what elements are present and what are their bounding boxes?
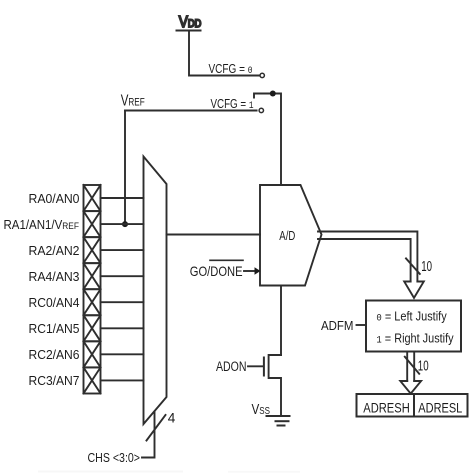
svg-text:1 = Right Justify: 1 = Right Justify <box>376 330 454 346</box>
svg-text:ADRESH: ADRESH <box>363 401 410 416</box>
analog input multiplexer <box>144 157 167 425</box>
bus width slash 4 <box>147 415 166 441</box>
svg-text:RA0/AN0: RA0/AN0 <box>29 191 80 206</box>
wire VREF to VCFG=1 contact <box>125 110 257 112</box>
wire CHS select into mux <box>142 412 155 458</box>
wire VREF down to RA1 pin <box>124 111 126 225</box>
switch contact VCFG=0 <box>260 73 264 77</box>
svg-text:GO/DONE: GO/DONE <box>190 264 243 279</box>
open arrowhead into result registers <box>400 381 421 394</box>
register ADRESL <box>414 394 468 417</box>
svg-text:RC1/AN5: RC1/AN5 <box>29 321 80 336</box>
svg-text:RC2/AN6: RC2/AN6 <box>29 347 80 362</box>
svg-text:RC0/AN4: RC0/AN4 <box>29 295 80 310</box>
svg-text:VREF: VREF <box>121 92 145 109</box>
svg-text:4: 4 <box>168 411 176 426</box>
junction dot on wiper <box>270 91 276 97</box>
switch contact VCFG=1 <box>259 108 263 112</box>
svg-text:ADFM: ADFM <box>321 318 354 333</box>
pin RC0/AN4 <box>29 289 144 315</box>
result justify block <box>366 301 461 352</box>
svg-text:VCFG = 0: VCFG = 0 <box>209 61 253 77</box>
A/D converter block <box>260 185 322 286</box>
svg-text:RC3/AN7: RC3/AN7 <box>29 373 80 388</box>
pin RC3/AN7 <box>29 367 144 393</box>
wire A/D bottom to transistor drain <box>280 286 282 356</box>
wire VDD to VCFG=0 contact <box>189 32 259 76</box>
svg-text:VDD: VDD <box>179 14 202 31</box>
bus width slash 10 <box>405 357 419 374</box>
wire mux output to A/D input <box>167 234 261 236</box>
register ADRESH <box>357 394 415 417</box>
svg-text:VCFG = 1: VCFG = 1 <box>211 96 254 112</box>
pin RA4/AN3 <box>29 263 144 289</box>
switch wiper wire to A/D reference input <box>254 94 281 186</box>
svg-text:CHS <3:0>: CHS <3:0> <box>88 450 141 465</box>
bus width slash 10 <box>406 258 420 274</box>
svg-text:ADRESL: ADRESL <box>418 401 462 416</box>
ground <box>267 416 290 426</box>
open arrowhead into justify block <box>404 282 424 298</box>
svg-text:10: 10 <box>421 259 432 275</box>
junction dot at RA1/AN1/VREF <box>122 221 128 227</box>
svg-text:0 = Left Justify: 0 = Left Justify <box>376 309 447 325</box>
svg-text:RA4/AN3: RA4/AN3 <box>29 269 80 284</box>
transistor ADON pass FET <box>248 355 281 416</box>
pin RA2/AN2 <box>29 237 144 263</box>
pin RA1/AN1/VREF <box>4 211 144 237</box>
pin RC2/AN6 <box>29 341 144 367</box>
bus 10-bit justify block to result registers <box>407 352 414 382</box>
pin RA0/AN0 <box>29 185 144 211</box>
signal GO/DONE <box>190 260 261 279</box>
svg-text:10: 10 <box>418 358 429 374</box>
svg-text:A/D: A/D <box>279 228 295 243</box>
svg-text:RA1/AN1/VREF: RA1/AN1/VREF <box>4 217 80 232</box>
svg-text:RA2/AN2: RA2/AN2 <box>29 243 80 258</box>
bus 10-bit from A/D <box>318 232 417 282</box>
svg-text:ADON: ADON <box>216 359 247 374</box>
power VDD <box>177 14 202 31</box>
signal ADFM <box>321 318 366 333</box>
pin RC1/AN5 <box>29 315 144 341</box>
